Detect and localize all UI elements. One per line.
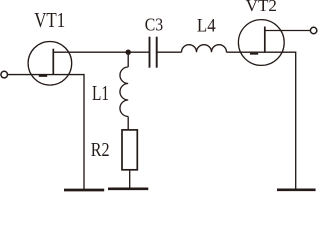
resistor R2 [122,130,137,170]
node: junction dot [126,50,131,55]
wire: R2 to ground [129,170,131,189]
inductor L1 [120,67,128,117]
ground (under VT1 source) [64,189,104,192]
transistor VT1 [28,42,72,86]
ground (under VT2 source) [277,188,316,191]
input terminal [1,71,8,78]
ground (under R2) [108,187,148,190]
wire: input to VT1 gate/source, bends down to ground [8,75,84,190]
capacitor C3 [150,37,157,68]
transistor VT2 [238,20,284,66]
wire: L1 to R2 [127,117,129,131]
wire: VT2 drain to output terminal [265,30,311,32]
svg-text:VT1: VT1 [34,8,65,32]
svg-text:L4: L4 [197,17,216,37]
wire: L4 to VT2 gate/source, bends down to ground [227,52,296,189]
wire: junction down to L1 [127,52,129,67]
output terminal [310,27,316,33]
svg-text:R2: R2 [91,140,110,161]
wire: C3 to L4 [157,51,182,53]
inductor L4 [182,45,227,52]
wire: VT1 drain to C3 [53,51,149,53]
svg-text:VT2: VT2 [246,0,277,15]
svg-text:L1: L1 [92,81,109,105]
svg-text:C3: C3 [145,14,163,34]
